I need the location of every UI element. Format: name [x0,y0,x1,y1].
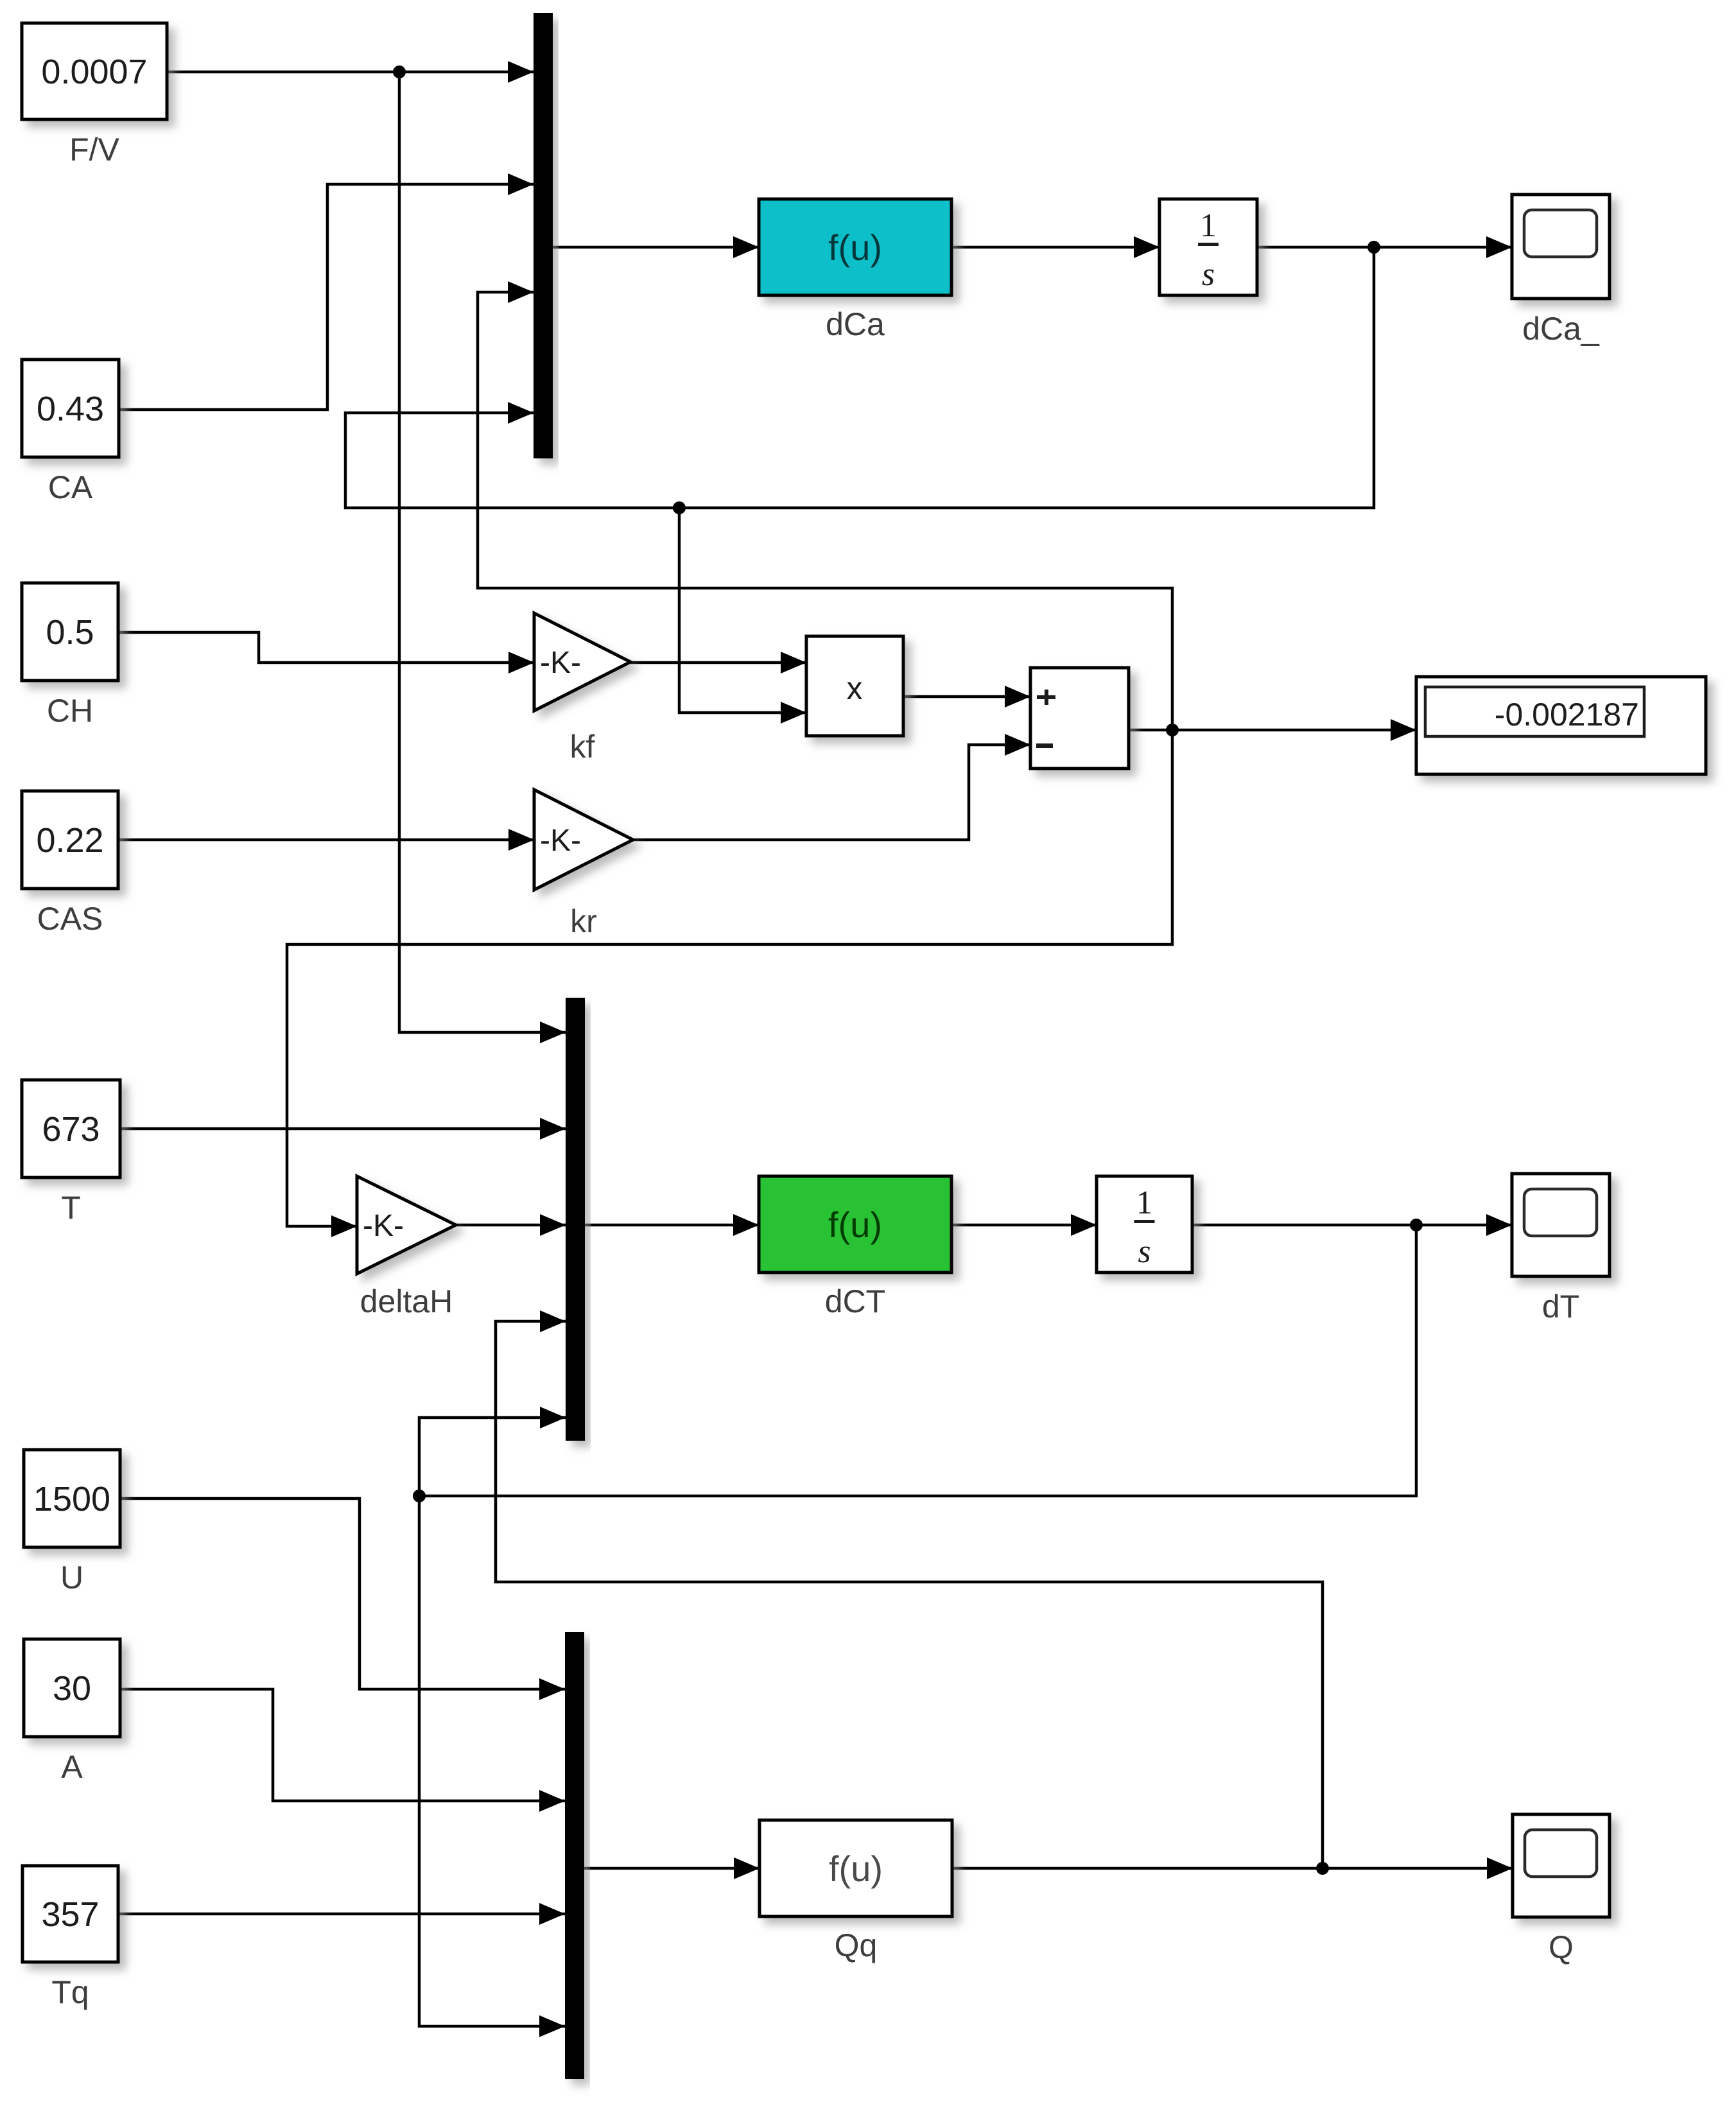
arrowhead into kf [508,652,534,673]
svg-text:x: x [847,670,863,706]
junction on F/V wire [393,65,406,78]
wire CAS to gain kr [118,838,534,842]
svg-text:dCT: dCT [825,1283,885,1319]
svg-text:F/V: F/V [69,132,119,168]
arrowhead into Mux1 in1 [508,61,534,83]
svg-text:s: s [1202,256,1215,293]
constant Tq value 357 [22,1866,118,1962]
constant U value 1500 [24,1450,120,1547]
wire dCT to Integrator2 [951,1224,1097,1227]
product block [806,636,903,736]
scope dCa_ [1512,195,1610,299]
arrowhead into Integrator2 [1071,1214,1097,1236]
svg-text:0.43: 0.43 [37,390,104,428]
constant CA value 0.43 [22,360,119,457]
wire Mux3 to Qq [584,1867,759,1870]
svg-text:0.22: 0.22 [36,821,103,860]
svg-text:673: 673 [42,1110,100,1149]
wire Mux1 to dCa [553,246,759,249]
wire CH to gain kf [118,632,534,663]
junction on dT feedback [413,1490,426,1502]
mux Mux3 [565,1632,584,2079]
junction on Integrator2 output [1410,1219,1423,1231]
arrowhead into Sum minus [1005,734,1030,756]
constant A value 30 [24,1639,120,1737]
svg-text:0.0007: 0.0007 [41,53,147,91]
svg-text:dT: dT [1542,1289,1579,1325]
constant T value 673 [22,1080,120,1177]
svg-text:Tq: Tq [51,1974,89,2010]
wire Ca feedback to Mux1 in4 [345,247,1374,508]
integrator Integrator2 1/s [1097,1176,1192,1272]
wire A to Mux3 in2 [120,1689,565,1801]
svg-text:dCa: dCa [826,306,885,342]
fcn block dCT f(u) [759,1176,951,1272]
svg-text:-0.002187: -0.002187 [1495,697,1639,733]
arrowhead into Mux2 in5 [540,1407,566,1429]
svg-text:A: A [61,1749,83,1785]
wire Integrator1 to scope dCa_ [1257,246,1512,249]
wire Q feedback to Mux2 in4 [496,1321,1323,1868]
arrowhead into Mux1 in4 [508,402,534,424]
arrowhead into Product in1 [781,652,806,673]
arrowhead into scope Q [1487,1857,1513,1879]
arrowhead into Integrator1 [1134,236,1159,258]
svg-text:deltaH: deltaH [360,1283,453,1319]
wire U to Mux3 in1 [120,1498,565,1689]
integrator Integrator1 1/s [1159,199,1257,295]
svg-text:s: s [1138,1233,1150,1270]
wire dCa to Integrator1 [951,246,1159,249]
svg-text:CH: CH [47,693,93,729]
arrowhead into Mux3 in4 [539,2015,565,2037]
arrowhead into deltaH [331,1215,357,1237]
arrowhead into Mux2 in1 [540,1021,566,1043]
svg-text:CA: CA [48,469,93,505]
wire Qq to scope Q [952,1867,1513,1870]
gain kr -K- [534,790,633,890]
arrowhead into Mux3 in2 [539,1790,565,1812]
arrowhead into Mux1 in2 [508,173,534,195]
wire Mux2 to dCT [585,1224,759,1227]
arrowhead into scope dT [1486,1214,1512,1236]
scope dT [1512,1174,1610,1276]
scope Q [1513,1814,1610,1917]
svg-text:f(u): f(u) [828,1204,882,1245]
wire Sum output to gain deltaH [287,730,1172,1226]
svg-text:kr: kr [570,903,597,939]
wire Sum output feedback to Mux1 in3 [478,292,1172,730]
arrowhead into Mux3 in1 [539,1678,565,1700]
arrowhead into Display [1391,719,1416,741]
wire T to Mux2 in2 [120,1127,566,1131]
arrowhead into Mux3 in3 [539,1903,565,1925]
arrowhead into scope dCa_ [1486,236,1512,258]
arrowhead into Mux2 in4 [540,1310,566,1332]
arrowhead into dCa [733,236,759,258]
arrowhead into Product in2 [781,702,806,724]
arrowhead into Mux2 in2 [540,1118,566,1140]
svg-text:1500: 1500 [33,1480,110,1518]
wire Tq to Mux3 in3 [118,1913,565,1916]
wire Product to Sum plus [903,695,1030,699]
svg-text:357: 357 [41,1895,99,1934]
wire F/V to Mux1 in1 [167,71,534,74]
wire Sum to Display [1129,729,1416,732]
arrowhead into dCT [733,1214,759,1236]
mux Mux2 [566,998,585,1441]
wire Ca feedback to Product in2 [679,508,806,713]
wire dT feedback to Mux2 in5 [419,1225,1416,1496]
wire F/V branch down to Mux2 in1 [399,72,566,1032]
arrowhead into Mux1 in3 [508,281,534,303]
gain deltaH -K- [357,1176,456,1274]
display block -0.002187 [1416,677,1706,774]
junction on Qq output [1316,1862,1329,1875]
svg-text:dCa_: dCa_ [1522,311,1600,347]
svg-text:CAS: CAS [37,901,103,937]
svg-text:-K-: -K- [540,646,581,680]
svg-text:kf: kf [570,729,595,765]
svg-text:U: U [60,1559,83,1595]
svg-text:f(u): f(u) [829,1848,883,1889]
svg-text:30: 30 [53,1669,91,1708]
fcn block Qq f(u) [759,1820,952,1916]
fcn block dCa f(u) [759,199,951,295]
svg-text:Q: Q [1549,1929,1574,1965]
wire Integrator2 to scope dT [1192,1224,1512,1227]
svg-text:0.5: 0.5 [46,613,94,652]
svg-text:Qq: Qq [835,1927,878,1963]
arrowhead into Mux2 in3 [540,1214,566,1236]
constant F/V value 0.0007 [22,23,167,119]
junction on Ca feedback [673,501,686,514]
svg-text:-K-: -K- [363,1209,404,1243]
svg-text:-K-: -K- [540,824,581,858]
junction on Sum output [1166,724,1179,736]
junction on Integrator1 output [1367,241,1380,254]
sum block [1030,668,1129,769]
arrowhead into kr [508,829,534,851]
svg-text:1: 1 [1200,207,1217,244]
constant CAS value 0.22 [22,791,118,889]
wire dT feedback to Mux3 in4 [419,1496,565,2026]
arrowhead into Sum plus [1005,686,1030,708]
mux Mux1 [534,13,553,458]
svg-text:T: T [61,1190,81,1226]
arrowhead into Qq [734,1857,759,1879]
wire CA to Mux1 in2 [119,184,534,410]
constant CH value 0.5 [22,583,118,681]
wire kf to Product in1 [630,661,806,664]
svg-text:1: 1 [1136,1185,1153,1221]
wire kr to Sum minus [633,745,1030,840]
wire deltaH to Mux2 in3 [456,1224,566,1227]
gain kf -K- [534,613,630,711]
svg-text:f(u): f(u) [828,227,882,268]
